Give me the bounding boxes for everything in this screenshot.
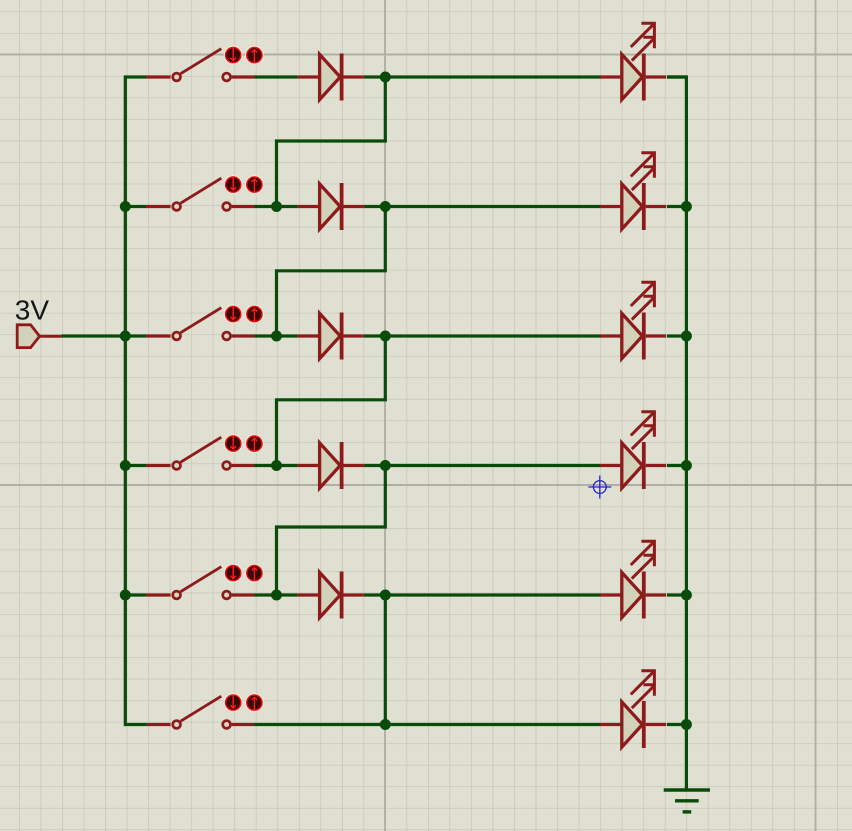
wire diode 5 out to row 6 bbox=[384, 595, 387, 725]
wire led 3 to right bus bbox=[667, 334, 688, 337]
led 1 bbox=[600, 23, 666, 100]
wire led 5 to right bus bbox=[667, 593, 688, 596]
junction jog row 2 bbox=[271, 201, 282, 212]
switch 2 bbox=[146, 176, 263, 211]
junction left bus row 2 bbox=[120, 201, 131, 212]
junction mid row 1 bbox=[380, 72, 391, 83]
switch 3 bbox=[146, 305, 263, 340]
switch 4 bbox=[146, 435, 263, 470]
power terminal 3V bbox=[17, 325, 62, 348]
junction left bus row 4 bbox=[120, 460, 131, 471]
switch 1 bbox=[146, 46, 263, 81]
wire bus to switch 4 bbox=[124, 464, 147, 467]
junction jog row 4 bbox=[271, 460, 282, 471]
switch 5 bbox=[146, 564, 263, 599]
switch 6 bbox=[146, 694, 263, 729]
wire led 2 to right bus bbox=[667, 205, 688, 208]
wire switch 2 to diode 2 bbox=[254, 205, 297, 208]
junction mid row 4 bbox=[380, 460, 391, 471]
diode 5 bbox=[298, 572, 364, 619]
diode 2 bbox=[298, 183, 364, 230]
cursor crosshair bbox=[588, 476, 611, 499]
junction right bus row 4 bbox=[681, 460, 692, 471]
junction left bus row 3 bbox=[120, 331, 131, 342]
wire diode 1 out to row 2 bbox=[277, 77, 386, 207]
wire diode 3 to led 3 bbox=[364, 334, 601, 337]
wire diode 4 out to row 5 bbox=[277, 466, 386, 596]
svg-text:3V: 3V bbox=[15, 295, 50, 326]
junction jog row 5 bbox=[271, 590, 282, 601]
diode 4 bbox=[298, 442, 364, 489]
wire diode 4 to led 4 bbox=[364, 464, 601, 467]
wire diode 2 to led 2 bbox=[364, 205, 601, 208]
wire led 1 to right bus bbox=[667, 75, 686, 78]
wire diode 1 to led 1 bbox=[364, 75, 601, 78]
junction right bus row 2 bbox=[681, 201, 692, 212]
wire bus to switch 2 bbox=[124, 205, 147, 208]
junction mid row 6 bbox=[380, 719, 391, 730]
wire terminal to left bus bbox=[62, 334, 126, 337]
junction jog row 3 bbox=[271, 331, 282, 342]
wire diode 5 to led 5 bbox=[364, 593, 601, 596]
junction mid row 3 bbox=[380, 331, 391, 342]
left bus wire bbox=[125, 77, 146, 725]
led 6 bbox=[600, 671, 666, 748]
wire led 4 to right bus bbox=[667, 464, 688, 467]
led 4 bbox=[600, 412, 666, 489]
right bus wire bbox=[667, 77, 686, 789]
junction left bus row 5 bbox=[120, 590, 131, 601]
wire switch 3 to diode 3 bbox=[254, 334, 297, 337]
wire switch 1 to diode 1 bbox=[254, 75, 297, 78]
led 2 bbox=[600, 153, 666, 230]
wire led 6 to right bus bbox=[667, 723, 688, 726]
wire switch 4 to diode 4 bbox=[254, 464, 297, 467]
wire bus to switch 3 bbox=[124, 334, 147, 337]
junction mid row 5 bbox=[380, 590, 391, 601]
wire bus to switch 5 bbox=[124, 593, 147, 596]
diode 1 bbox=[298, 54, 364, 101]
led 3 bbox=[600, 282, 666, 359]
junction mid row 2 bbox=[380, 201, 391, 212]
wire switch 5 to diode 5 bbox=[254, 593, 297, 596]
junction right bus row 3 bbox=[681, 331, 692, 342]
junction right bus row 6 bbox=[681, 719, 692, 730]
diode 3 bbox=[298, 313, 364, 360]
ground bbox=[664, 790, 710, 812]
wire diode 2 out to row 3 bbox=[277, 207, 386, 337]
wire diode 3 out to row 4 bbox=[277, 336, 386, 466]
led 5 bbox=[600, 541, 666, 618]
wire switch 6 to led 6 bbox=[254, 723, 601, 726]
junction right bus row 5 bbox=[681, 590, 692, 601]
